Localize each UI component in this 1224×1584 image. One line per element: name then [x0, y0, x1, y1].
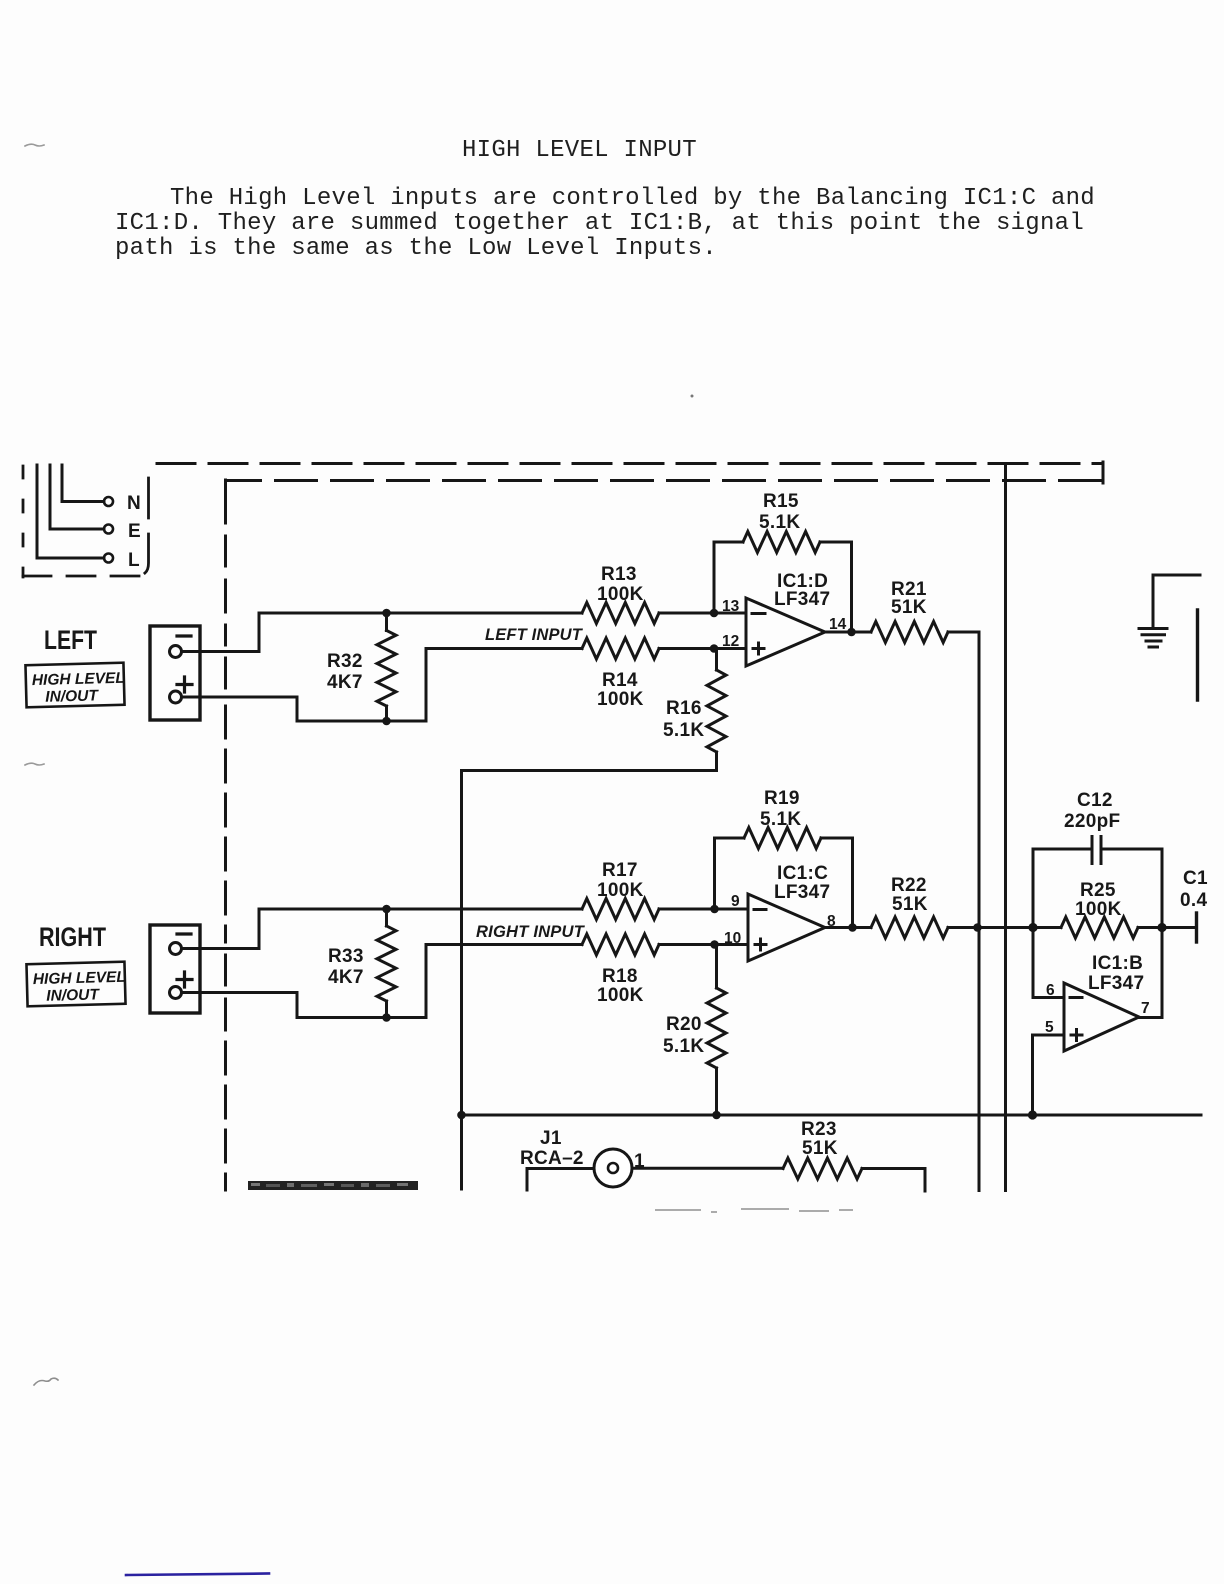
IC1:B plus input mark	[1071, 1030, 1082, 1041]
svg-text:4K7: 4K7	[328, 967, 364, 988]
wire: RIGHT minus to top rail	[182, 909, 583, 949]
connector J LEFT body	[150, 626, 200, 720]
svg-text:13: 13	[722, 598, 740, 615]
svg-text:5.1K: 5.1K	[663, 1036, 704, 1057]
svg-text:IC1:C: IC1:C	[777, 863, 828, 884]
svg-text:5.1K: 5.1K	[663, 720, 704, 741]
svg-text:The High Level inputs are cont: The High Level inputs are controlled by …	[170, 185, 1095, 212]
op-amp U IC1:C triangle	[748, 894, 825, 961]
dashed frame: outer top right corner	[1102, 462, 1105, 483]
node: pin12 junction	[710, 644, 719, 653]
connector LEFT plus terminal	[170, 691, 182, 703]
svg-text:LEFT: LEFT	[44, 625, 97, 655]
svg-text:R15: R15	[763, 491, 799, 512]
node: IC1:C output junction	[848, 923, 857, 932]
IC1:D plus input mark	[753, 643, 764, 654]
svg-text:100K: 100K	[597, 880, 644, 901]
faint printing fragments	[656, 1209, 852, 1212]
IC1:C minus input mark	[754, 908, 766, 911]
svg-text:HIGH LEVEL: HIGH LEVEL	[32, 670, 125, 689]
connector J1 RCA outer ring	[594, 1149, 632, 1187]
resistor R21	[871, 622, 948, 643]
node: IC1:B plus junction	[1028, 1110, 1037, 1119]
svg-text:R14: R14	[602, 670, 638, 691]
resistor R22	[871, 917, 948, 938]
wire: jog up to LEFT INPUT line	[426, 649, 582, 722]
margin smudge bottom	[34, 1378, 58, 1385]
mains wire bus 1	[37, 465, 104, 558]
svg-text:51K: 51K	[892, 894, 928, 915]
wire: LEFT plus to bottom rail	[182, 697, 427, 721]
svg-text:4K7: 4K7	[327, 672, 363, 693]
wire: R22 to summing node	[948, 926, 1033, 929]
svg-text:E: E	[128, 521, 141, 542]
svg-text:220pF: 220pF	[1064, 811, 1120, 832]
svg-text:100K: 100K	[597, 584, 644, 605]
resistor R33	[385, 909, 388, 926]
connector RIGHT minus mark	[177, 932, 191, 935]
resistor R15	[743, 532, 820, 553]
svg-text:path is the same as the Low Le: path is the same as the Low Level Inputs…	[115, 235, 717, 262]
svg-text:100K: 100K	[597, 689, 644, 710]
svg-text:5: 5	[1045, 1019, 1054, 1036]
resistor R25	[1033, 926, 1061, 929]
node: bus left junction	[457, 1111, 466, 1120]
wire: R16 bottom to ground bus	[462, 771, 717, 1116]
svg-text:IN/OUT: IN/OUT	[46, 986, 100, 1004]
svg-text:5.1K: 5.1K	[759, 512, 800, 533]
svg-text:100K: 100K	[597, 985, 644, 1006]
connector J1 RCA center pin	[608, 1163, 618, 1173]
mains block dashed border left	[22, 466, 25, 577]
svg-text:R33: R33	[328, 946, 364, 967]
wire: J1 to R23	[632, 1167, 783, 1170]
terminal L	[104, 554, 113, 563]
node: R25 right junction	[1157, 923, 1166, 932]
node: IC1:B input junction	[1028, 923, 1037, 932]
svg-text:C12: C12	[1077, 790, 1113, 811]
node: left/right sum junction	[973, 923, 982, 932]
svg-text:9: 9	[731, 893, 740, 910]
mains block dashed border bottom	[23, 575, 141, 578]
op-amp IC1:D feedback loop wire	[714, 542, 852, 632]
blue pen underline	[126, 1574, 269, 1576]
HIGH LEVEL IN/OUT label box (right)	[26, 962, 126, 1007]
svg-text:14: 14	[829, 616, 847, 633]
wire: LEFT minus to top rail	[182, 613, 583, 652]
connector LEFT minus terminal	[170, 646, 182, 658]
svg-text:6: 6	[1046, 982, 1055, 999]
svg-text:7: 7	[1141, 1000, 1150, 1017]
resistor R32	[385, 613, 388, 631]
IC1:B minus input mark	[1070, 996, 1082, 999]
node: R32 top junction	[382, 609, 391, 618]
ground bus rail	[462, 1114, 1202, 1117]
connector RIGHT minus terminal	[170, 943, 182, 955]
svg-text:C1: C1	[1183, 868, 1208, 889]
svg-text:HIGH LEVEL INPUT: HIGH LEVEL INPUT	[462, 137, 697, 164]
svg-text:5.1K: 5.1K	[760, 809, 801, 830]
svg-text:LF347: LF347	[1088, 973, 1144, 994]
svg-text:R23: R23	[801, 1119, 837, 1140]
capacitor C12	[1092, 837, 1101, 864]
wire: RIGHT plus to bottom rail	[182, 993, 427, 1018]
svg-text:R16: R16	[666, 698, 702, 719]
svg-text:R22: R22	[891, 875, 927, 896]
wire: R23 to lower section (cut off)	[862, 1169, 925, 1192]
svg-text:RIGHT: RIGHT	[39, 922, 106, 952]
svg-text:R32: R32	[327, 651, 363, 672]
terminal N	[104, 497, 113, 506]
connector LEFT plus mark	[177, 677, 192, 692]
node: pin13 junction	[710, 609, 719, 618]
svg-text:R25: R25	[1080, 880, 1116, 901]
capacitor C13 plate (cut off)	[1195, 913, 1198, 942]
svg-text:N: N	[127, 493, 141, 514]
svg-text:R17: R17	[602, 860, 638, 881]
svg-text:12: 12	[722, 633, 739, 650]
ground symbol	[1153, 575, 1200, 628]
svg-text:IC1:D. They are summed togethe: IC1:D. They are summed together at IC1:B…	[115, 210, 1084, 237]
resistor R18	[582, 934, 659, 955]
svg-text:51K: 51K	[802, 1138, 838, 1159]
dashed frame: inner top border	[226, 479, 1103, 482]
node: IC1:D output junction	[847, 628, 856, 637]
wire: to capacitor C13 (cut off)	[1162, 926, 1196, 929]
wire: bus left continues below	[460, 1115, 463, 1189]
connector RIGHT plus mark	[177, 972, 192, 987]
resistor R19	[744, 828, 821, 849]
svg-text:R19: R19	[764, 788, 800, 809]
wire: IC1:B feedback box left/top/right	[1033, 849, 1162, 1018]
wire: jog up to RIGHT INPUT line	[426, 945, 582, 1018]
node: R33 bottom junction	[382, 1013, 391, 1022]
component lead (cut off at page edge)	[1196, 610, 1199, 700]
svg-text:51K: 51K	[891, 597, 927, 618]
node: pin9 junction	[710, 905, 719, 914]
svg-text:100K: 100K	[1075, 899, 1122, 920]
resistor R16	[715, 649, 718, 671]
dashed frame: left vertical border	[224, 480, 227, 1190]
resistor R13	[582, 603, 659, 624]
wire: IC1:D output	[825, 631, 871, 634]
svg-text:L: L	[128, 550, 140, 571]
bus line (screen)	[1004, 464, 1007, 1191]
resistor R17	[582, 899, 659, 920]
op-amp U IC1:B triangle	[1064, 983, 1139, 1051]
svg-text:R18: R18	[602, 966, 638, 987]
resistor R20	[715, 945, 718, 989]
IC1:C plus input mark	[755, 939, 766, 950]
op-amp IC1:C feedback loop wire	[715, 838, 853, 928]
op-amp U IC1:D triangle	[746, 598, 825, 666]
connector LEFT minus mark	[177, 634, 191, 637]
connector J1 shell lead	[527, 1169, 593, 1191]
node: R32 bottom junction	[382, 717, 391, 726]
IC1:B plus input wire to ground bus	[1033, 1035, 1065, 1115]
mains block dashed border right	[139, 478, 149, 575]
svg-text:RCA–2: RCA–2	[520, 1148, 584, 1169]
svg-text:LF347: LF347	[774, 589, 830, 610]
node: R33 top junction	[382, 905, 391, 914]
margin smudge middle	[25, 763, 44, 765]
node: pin10 junction	[710, 940, 719, 949]
svg-text:IN/OUT: IN/OUT	[45, 687, 99, 705]
wire: IC1:C output	[825, 926, 871, 929]
stray dot	[691, 395, 694, 398]
wire: R21 to left-output bus	[948, 632, 979, 1191]
terminal E	[104, 525, 113, 534]
connector J RIGHT body	[150, 925, 200, 1013]
smudged label bar (illegible)	[248, 1181, 418, 1190]
svg-text:RIGHT INPUT: RIGHT INPUT	[476, 922, 585, 941]
margin smudge top	[25, 144, 44, 146]
node: R20 bottom junction	[712, 1111, 721, 1120]
svg-text:0.4: 0.4	[1180, 890, 1207, 911]
IC1:D minus input mark	[752, 612, 765, 615]
resistor R23	[783, 1158, 862, 1179]
svg-text:J1: J1	[540, 1128, 562, 1149]
mains wire bus 3	[62, 465, 104, 502]
svg-text:10: 10	[724, 930, 741, 947]
svg-text:LF347: LF347	[774, 882, 830, 903]
svg-text:LEFT INPUT: LEFT INPUT	[485, 625, 583, 644]
dashed frame: outer top border	[157, 462, 1103, 465]
resistor R14	[582, 638, 659, 659]
connector RIGHT plus terminal	[170, 987, 182, 999]
svg-text:HIGH LEVEL: HIGH LEVEL	[33, 969, 126, 988]
HIGH LEVEL IN/OUT label box (left)	[25, 663, 125, 708]
svg-text:R20: R20	[666, 1014, 702, 1035]
svg-text:R13: R13	[601, 564, 637, 585]
mains wire bus 2	[50, 465, 104, 529]
IC1:B minus input wire	[1033, 996, 1064, 999]
svg-text:IC1:B: IC1:B	[1092, 953, 1143, 974]
